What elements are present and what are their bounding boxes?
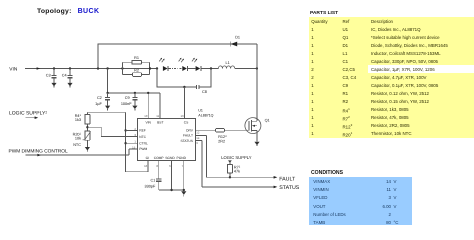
svg-text:1k3: 1k3 — [75, 118, 81, 122]
svg-text:Q1: Q1 — [265, 118, 270, 122]
wire PWM input — [26, 149, 137, 155]
svg-text:U1: U1 — [198, 109, 203, 113]
svg-text:2R2: 2R2 — [218, 139, 225, 143]
node junction R7 FAULT — [229, 176, 231, 178]
resistor R2 — [133, 68, 142, 76]
wire switch node vertical — [256, 44, 258, 118]
node junction SGND — [170, 189, 172, 191]
ground C3 — [51, 83, 56, 88]
svg-text:D1: D1 — [235, 35, 240, 39]
capacitor C8 — [196, 85, 206, 94]
svg-text:NTC: NTC — [73, 143, 81, 147]
svg-text:GI: GI — [146, 156, 150, 160]
svg-text:AL8871Q: AL8871Q — [198, 113, 213, 117]
svg-text:C8: C8 — [202, 90, 207, 94]
node junction C4 — [69, 67, 71, 69]
svg-text:NTC: NTC — [139, 135, 146, 139]
svg-text:330pF: 330pF — [145, 184, 156, 188]
svg-text:REF: REF — [139, 129, 146, 133]
svg-text:PWM DIMMING CONTROL: PWM DIMMING CONTROL — [9, 149, 68, 155]
svg-text:1µF: 1µF — [95, 102, 102, 106]
node junction switch node — [256, 67, 258, 69]
resistor R12 — [195, 129, 227, 144]
ground Q1 source — [254, 142, 259, 146]
wire top freewheel rail — [98, 44, 257, 69]
svg-text:C9: C9 — [125, 96, 130, 100]
svg-text:FAULT: FAULT — [183, 134, 193, 138]
svg-text:CS: CS — [184, 121, 189, 125]
wire dashed LED continuation — [169, 68, 183, 70]
wire CS riser — [183, 87, 185, 119]
wire COMP pin to C1 — [158, 161, 160, 179]
svg-text:PGND: PGND — [177, 156, 187, 160]
svg-text:12: 12 — [196, 130, 200, 134]
svg-text:C1: C1 — [150, 178, 155, 182]
wire LED3 to node B — [201, 68, 218, 70]
conditions title — [311, 170, 343, 176]
svg-text:PWM: PWM — [139, 147, 147, 151]
svg-text:LOGIC SUPPLY: LOGIC SUPPLY — [221, 155, 252, 160]
wire PWM direction arrow — [37, 154, 41, 157]
wire LOGIC SUPPLY annotation arrow — [26, 116, 39, 119]
svg-text:SGND: SGND — [165, 156, 175, 160]
node FAULT output label — [279, 177, 296, 183]
parts list title — [310, 11, 338, 16]
node junction C9 top — [134, 92, 136, 94]
svg-text:CTRL: CTRL — [139, 141, 148, 145]
wire C2/C9/VIN-pin rail — [108, 69, 160, 119]
svg-text:STATUS: STATUS — [180, 139, 193, 143]
node junction R1R2 right — [149, 67, 151, 69]
wire LED bypass branch — [157, 69, 211, 88]
op-amp substitute: IC U1 AL8871Q body — [138, 119, 196, 161]
node junction top-rail riser — [97, 67, 99, 69]
svg-text:COMP: COMP — [154, 156, 165, 160]
node junction PGND — [183, 189, 185, 191]
svg-text:7: 7 — [181, 164, 183, 168]
svg-text:C4: C4 — [62, 74, 67, 78]
svg-text:BST: BST — [157, 121, 163, 125]
wire VIN rail — [25, 68, 157, 70]
svg-text:14: 14 — [196, 136, 200, 140]
capacitor C4 — [62, 69, 73, 83]
LED D2 (first of string) — [159, 58, 168, 71]
resistor R4 — [75, 112, 90, 131]
svg-text:STATUS: STATUS — [279, 185, 300, 191]
LED D3 (middle of string) — [179, 58, 188, 71]
svg-text:VIN: VIN — [145, 121, 151, 125]
capacitor C9 — [121, 93, 138, 106]
wire CTRL to pin16 loop — [126, 161, 149, 172]
ground PGND rail — [181, 191, 186, 196]
wire REF net riser — [87, 112, 125, 172]
ground C9 — [132, 106, 137, 111]
svg-text:13: 13 — [180, 114, 184, 118]
node junction REF — [124, 129, 126, 131]
capacitor C1 — [145, 178, 162, 190]
node junction C2 drop — [106, 67, 108, 69]
ground C2 — [105, 106, 110, 111]
node junction CTRL — [124, 142, 126, 144]
parts list table — [309, 17, 474, 138]
IC U1 reference label — [198, 109, 213, 118]
capacitor C2 — [95, 93, 110, 106]
IC U1 pin numbers — [132, 114, 200, 168]
node LOGIC SUPPLY input label — [9, 110, 47, 116]
svg-text:R2: R2 — [134, 68, 139, 72]
node junction VIN pin riser — [147, 92, 149, 94]
wire FAULT output arrow — [274, 176, 278, 179]
wire STATUS output arrow — [274, 186, 278, 189]
title — [37, 8, 99, 15]
node STATUS output label — [279, 185, 300, 191]
svg-text:10k: 10k — [75, 137, 81, 141]
diode D1 — [230, 35, 240, 46]
node A junction LED string start — [156, 67, 158, 69]
LED D4 (last of string) — [192, 58, 201, 71]
capacitor C3 — [46, 69, 57, 83]
svg-text:C3: C3 — [46, 74, 51, 78]
thermistor R201 — [73, 131, 91, 147]
conditions table — [309, 177, 412, 226]
svg-text:L1: L1 — [225, 61, 229, 65]
node LOGIC SUPPLY pullup label — [221, 155, 252, 160]
wire LOGIC SUPPLY feed arrow — [228, 160, 232, 164]
svg-text:16: 16 — [144, 164, 148, 168]
wire R1R2 parallel loop — [122, 62, 149, 74]
node junction R4-R20 — [86, 126, 88, 128]
resistor R7 — [227, 165, 240, 178]
wire STATUS net — [195, 141, 274, 187]
ground R201 — [85, 147, 90, 152]
svg-text:FAULT: FAULT — [279, 177, 296, 183]
wire NTC net jog — [87, 127, 137, 136]
svg-text:100nF: 100nF — [121, 102, 132, 106]
wire ground rail below IC — [159, 161, 184, 190]
svg-text:VIN: VIN — [9, 66, 18, 72]
svg-text:47k: 47k — [234, 170, 240, 174]
IC U1 pin names — [139, 121, 194, 160]
node junction R1R2 left — [121, 67, 123, 69]
wire REF pin stub — [126, 129, 137, 131]
svg-text:DRV: DRV — [186, 129, 194, 133]
svg-text:R1: R1 — [134, 56, 139, 60]
resistor R1 — [132, 56, 142, 64]
node junction C2 top — [106, 92, 108, 94]
node PWM DIMMING CONTROL label — [9, 149, 68, 155]
svg-text:10: 10 — [144, 114, 148, 118]
wire CTRL pin stub — [126, 142, 137, 144]
inductor L1 — [218, 61, 234, 69]
svg-text:6: 6 — [169, 164, 171, 168]
wire VIN direction arrow — [37, 67, 41, 70]
svg-text:9: 9 — [196, 141, 198, 145]
transistor Q1 — [225, 118, 270, 142]
wire FAULT net — [195, 135, 274, 177]
svg-text:11: 11 — [156, 114, 159, 118]
node junction CS tap — [183, 86, 185, 88]
svg-text:8: 8 — [156, 164, 158, 168]
node B junction LED string end — [210, 67, 212, 69]
node junction C3 — [53, 67, 55, 69]
svg-text:LOGIC SUPPLY2: LOGIC SUPPLY2 — [9, 110, 47, 116]
wire L1 to switch node — [235, 68, 257, 70]
svg-text:C2: C2 — [97, 96, 102, 100]
node VIN input label — [9, 66, 18, 72]
ground C4 — [67, 83, 72, 88]
wire LED2 to LED3 — [188, 68, 196, 70]
